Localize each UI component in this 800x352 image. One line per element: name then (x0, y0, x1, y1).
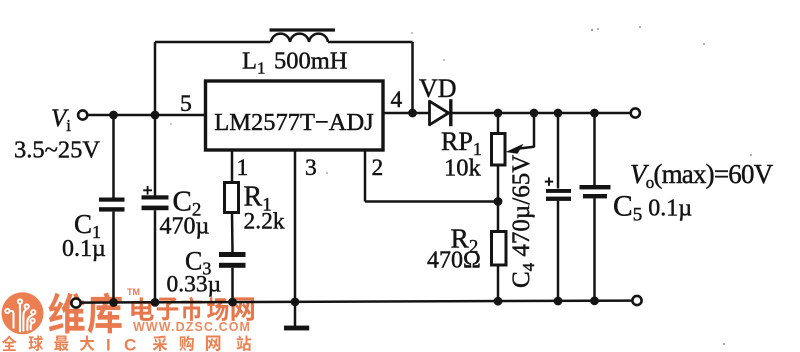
svg-text:1: 1 (237, 155, 249, 181)
junction rail wiper (530, 109, 539, 118)
junction rail C5 (590, 109, 599, 118)
resistor R2 (492, 232, 507, 266)
wire pin3 vertical (294, 150, 297, 302)
wire pin2 vertical (364, 150, 367, 202)
junction loop diode (408, 109, 417, 118)
wire C1 top lead (112, 115, 115, 198)
wire RP1 to node (497, 165, 500, 202)
watermark text 电子市场网 (131, 297, 254, 321)
wire RP1 top lead (497, 113, 500, 134)
wire C2 bottom lead (154, 210, 157, 302)
wire wiper vertical (533, 113, 536, 148)
svg-text:4: 4 (391, 87, 403, 113)
svg-text:LM2577T−ADJ: LM2577T−ADJ (214, 109, 374, 136)
wire C5 bottom lead (593, 198, 596, 300)
capacitor C2 (142, 195, 169, 210)
inductor L1 (271, 34, 328, 42)
wire C4 bottom lead (557, 201, 560, 301)
node output terminal plus (631, 108, 640, 117)
junction rail R2 bottom (494, 297, 503, 306)
watermark logo circle dzsc (2, 292, 44, 334)
potentiometer RP1 wiper arrow (506, 144, 524, 154)
wire loop top left (155, 41, 271, 44)
potentiometer RP1 body (492, 134, 506, 166)
wire C2 top lead (154, 115, 157, 196)
svg-text:500mH: 500mH (274, 48, 348, 75)
junction rail pin3 ground (291, 298, 300, 307)
capacitor C3 (219, 252, 246, 268)
wire input rail (87, 114, 205, 117)
op-amp U1 LM2577T-ADJ box (206, 81, 384, 150)
node input terminal Vi (78, 110, 87, 119)
wire R1 to C3 (231, 213, 234, 253)
node bottom terminal right (632, 296, 641, 305)
node bottom terminal left (71, 298, 80, 307)
wire pin2 horizontal (365, 200, 498, 203)
junction rail C4 (554, 109, 563, 118)
svg-text:10k: 10k (444, 155, 482, 182)
junction rail C5 bottom (590, 296, 599, 305)
svg-text:C: C (124, 336, 136, 352)
watermark text 全球最大IC采购网站 (2, 335, 251, 352)
svg-text:3: 3 (305, 155, 317, 181)
capacitor C4 (546, 189, 571, 201)
diode VD (430, 99, 451, 126)
wire pin1 lead (231, 150, 234, 183)
wire loop top right (328, 41, 413, 44)
svg-text:470Ω: 470Ω (427, 248, 481, 274)
watermark text 维 (49, 293, 85, 334)
svg-text:C5 0.1µ: C5 0.1µ (613, 191, 692, 226)
watermark text 库 (88, 293, 122, 334)
svg-text:L1: L1 (242, 48, 265, 78)
svg-text:2: 2 (372, 155, 384, 181)
svg-text:Vo(max)=60V: Vo(max)=60V (630, 159, 774, 192)
svg-text:TM: TM (127, 287, 140, 297)
svg-text:470µ: 470µ (160, 214, 210, 240)
svg-text:Vi: Vi (51, 105, 71, 135)
capacitor C1 (99, 198, 125, 212)
svg-text:0.1µ: 0.1µ (62, 236, 106, 262)
svg-text:3.5~25V: 3.5~25V (14, 137, 100, 164)
junction rail C3 bottom (228, 298, 237, 307)
wire output rail (452, 112, 631, 115)
junction rail C4 bottom (554, 297, 563, 306)
wire C1 bottom lead (112, 212, 115, 303)
wire R2 top lead (497, 202, 500, 232)
junction input C1 (109, 111, 118, 120)
svg-text:2.2k: 2.2k (244, 209, 285, 235)
wire loop right vertical (411, 42, 414, 113)
wire ground rail (80, 301, 632, 303)
capacitor C4 plus (545, 177, 553, 185)
junction rail C1 bottom (109, 298, 118, 307)
wire C5 top lead (593, 113, 596, 186)
ground (284, 302, 309, 330)
junction input C2 loop (151, 111, 160, 120)
inductor L1 core bar (270, 28, 336, 31)
svg-text:C4 470µ/65V: C4 470µ/65V (508, 155, 538, 288)
wire loop left vertical (154, 42, 157, 115)
wire pin4 to diode (384, 112, 430, 115)
junction rail C2 bottom (151, 298, 160, 307)
svg-text:VD: VD (419, 74, 457, 103)
svg-text:WWW.DZSC.COM: WWW.DZSC.COM (133, 320, 251, 334)
wire C3 bottom lead (231, 268, 234, 302)
svg-text:I: I (106, 336, 111, 352)
wire R2 bottom lead (497, 265, 500, 302)
capacitor C2 plus (143, 186, 152, 195)
wire wiper horizontal (517, 147, 534, 149)
noise specks (170, 26, 752, 345)
junction rail RP1 (494, 109, 503, 118)
capacitor C5 (580, 185, 611, 198)
wire C4 top lead (557, 113, 560, 189)
svg-text:0.33µ: 0.33µ (167, 272, 222, 298)
svg-text:5: 5 (180, 91, 192, 117)
junction RP1 R2 pin2 (494, 197, 503, 206)
resistor R1 (225, 183, 239, 213)
